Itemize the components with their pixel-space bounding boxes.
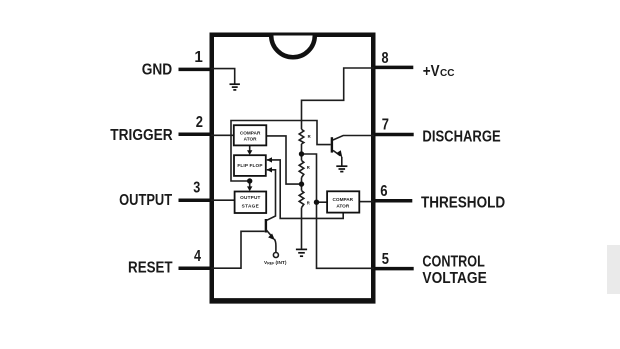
svg-text:7: 7 <box>382 117 389 135</box>
svg-text:2: 2 <box>196 114 203 132</box>
svg-text:ATOR: ATOR <box>336 204 349 209</box>
svg-text:3: 3 <box>193 179 200 197</box>
svg-text:1: 1 <box>194 49 203 66</box>
svg-text:VREF (INT): VREF (INT) <box>264 260 287 266</box>
svg-text:DISCHARGE: DISCHARGE <box>422 128 501 146</box>
svg-text:+V: +V <box>423 63 440 80</box>
svg-text:R: R <box>308 134 311 139</box>
svg-text:FLIP FLOP: FLIP FLOP <box>237 163 262 168</box>
svg-text:COMPAR: COMPAR <box>333 197 354 202</box>
svg-text:STAGE: STAGE <box>242 203 260 208</box>
svg-text:GND: GND <box>142 62 173 79</box>
svg-text:ATOR: ATOR <box>244 137 257 142</box>
svg-text:TRIGGER: TRIGGER <box>110 127 173 144</box>
svg-text:8: 8 <box>382 50 389 68</box>
svg-text:R: R <box>307 165 310 170</box>
svg-text:R: R <box>307 201 310 206</box>
svg-text:CC: CC <box>440 68 454 79</box>
svg-text:OUTPUT: OUTPUT <box>240 195 260 200</box>
svg-text:VOLTAGE: VOLTAGE <box>422 269 486 287</box>
svg-text:RESET: RESET <box>128 259 173 276</box>
svg-text:COMPAR: COMPAR <box>240 130 261 135</box>
svg-text:THRESHOLD: THRESHOLD <box>421 195 505 212</box>
svg-text:4: 4 <box>194 247 201 265</box>
svg-text:OUTPUT: OUTPUT <box>119 192 172 210</box>
svg-text:5: 5 <box>382 251 389 269</box>
svg-text:6: 6 <box>380 183 387 200</box>
